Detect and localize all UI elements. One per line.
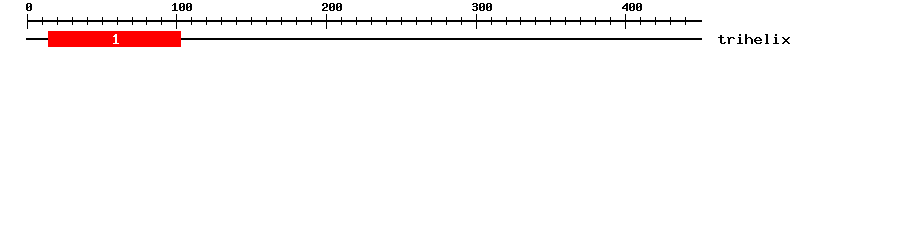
sequence backbone line [26, 38, 702, 40]
ruler label 300 [472, 3, 492, 11]
major tick 100 [176, 14, 177, 29]
major tick 400 [625, 14, 626, 29]
ruler label 0 [26, 3, 32, 11]
protein name trihelix [718, 34, 790, 44]
background [0, 0, 900, 58]
major tick 200 [326, 14, 327, 29]
ruler axis line [27, 20, 702, 22]
protein domain ruler diagram [0, 0, 900, 58]
domain number label 1 [113, 34, 119, 44]
ruler label 100 [172, 3, 192, 11]
ruler label 400 [622, 3, 642, 11]
ruler label 200 [322, 3, 342, 11]
minor ruler ticks (every 10 residues) [42, 17, 686, 25]
major tick 0 [27, 14, 28, 29]
major tick 300 [476, 14, 477, 29]
domain box 1 (red) [48, 31, 181, 47]
